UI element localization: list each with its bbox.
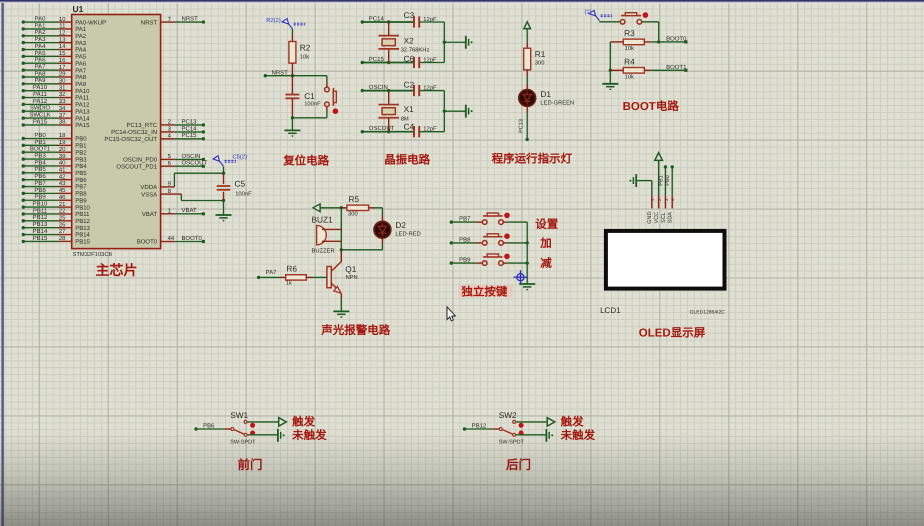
svg-text:PA5: PA5 [35, 50, 47, 57]
svg-text:PB12: PB12 [75, 218, 90, 225]
svg-text:LED-GREEN: LED-GREEN [540, 99, 574, 106]
svg-text:程序运行指示灯: 程序运行指示灯 [492, 153, 573, 166]
svg-text:NPN: NPN [346, 275, 358, 281]
svg-text:PB8: PB8 [34, 187, 46, 194]
svg-text:1: 1 [650, 198, 655, 201]
svg-text:PA2: PA2 [75, 33, 87, 40]
svg-text:VSSA: VSSA [141, 191, 157, 198]
svg-text:PA15: PA15 [33, 118, 48, 125]
svg-text:BUZZER: BUZZER [312, 249, 335, 255]
svg-text:PC14: PC14 [369, 15, 385, 22]
svg-text:4: 4 [671, 198, 676, 201]
svg-text:BOOT电路: BOOT电路 [623, 100, 680, 113]
svg-text:27: 27 [59, 228, 66, 235]
svg-text:D1: D1 [540, 89, 551, 99]
svg-text:SW2: SW2 [499, 410, 517, 420]
svg-text:3: 3 [664, 198, 669, 201]
svg-text:20: 20 [59, 146, 66, 153]
svg-text:OSCOUT: OSCOUT [369, 125, 395, 132]
svg-text:PA5: PA5 [75, 54, 87, 61]
svg-text:SCL: SCL [661, 212, 667, 223]
svg-text:OSCIN: OSCIN [369, 84, 388, 91]
svg-text:21: 21 [59, 201, 66, 208]
svg-text:12pF: 12pF [423, 85, 437, 92]
svg-text:R3: R3 [624, 28, 635, 38]
svg-text:PA7: PA7 [266, 269, 278, 276]
svg-text:PA11: PA11 [75, 95, 89, 102]
svg-text:PB4: PB4 [34, 159, 46, 166]
svg-text:OSCIN: OSCIN [182, 153, 201, 160]
svg-text:PB9: PB9 [75, 197, 87, 204]
svg-text:NRST: NRST [182, 15, 199, 22]
svg-text:主芯片: 主芯片 [96, 262, 138, 278]
svg-text:PA9: PA9 [75, 81, 87, 88]
svg-text:SW1: SW1 [230, 410, 248, 420]
svg-text:28: 28 [59, 235, 66, 242]
svg-text:PA9: PA9 [35, 77, 47, 84]
svg-text:PA2: PA2 [35, 29, 47, 36]
svg-text:C4: C4 [404, 122, 415, 132]
svg-text:PB5: PB5 [75, 170, 87, 177]
svg-text:42: 42 [59, 173, 66, 180]
svg-text:PA12: PA12 [75, 102, 90, 109]
svg-text:PA8: PA8 [75, 74, 87, 81]
svg-text:41: 41 [59, 167, 66, 174]
svg-text:12pF: 12pF [423, 126, 437, 133]
svg-text:PB4: PB4 [75, 163, 87, 170]
svg-text:1k: 1k [286, 280, 292, 287]
svg-text:BOOT0: BOOT0 [137, 239, 158, 246]
svg-text:PA15: PA15 [75, 122, 90, 129]
svg-text:PB6: PB6 [75, 177, 87, 184]
svg-text:R1: R1 [535, 49, 546, 59]
svg-text:46: 46 [59, 194, 66, 201]
svg-text:R6: R6 [286, 264, 297, 274]
svg-text:BOOT0: BOOT0 [182, 235, 203, 242]
svg-text:PB8: PB8 [459, 236, 471, 243]
svg-text:LED-RED: LED-RED [395, 232, 420, 238]
svg-text:OSCOUT_PD1: OSCOUT_PD1 [116, 163, 157, 170]
svg-text:触发: 触发 [292, 416, 315, 429]
svg-text:PC14-OSC32_IN: PC14-OSC32_IN [111, 129, 157, 136]
svg-text:GND: GND [647, 211, 653, 223]
svg-text:PA13: PA13 [75, 108, 90, 115]
svg-text:PB7: PB7 [34, 180, 46, 187]
svg-text:12pF: 12pF [423, 16, 437, 23]
svg-text:PA14: PA14 [75, 115, 90, 122]
svg-text:PB15: PB15 [75, 239, 90, 246]
svg-text:PB1: PB1 [75, 143, 87, 150]
svg-text:PB0: PB0 [75, 136, 87, 143]
svg-text:300: 300 [535, 60, 545, 67]
svg-text:45: 45 [59, 187, 66, 194]
svg-text:BOOT1: BOOT1 [666, 64, 687, 71]
svg-text:34: 34 [59, 105, 66, 112]
svg-text:11: 11 [59, 23, 66, 30]
svg-text:32.768KHz: 32.768KHz [401, 46, 430, 53]
svg-text:PB9: PB9 [459, 257, 471, 264]
svg-text:PA6: PA6 [75, 60, 87, 67]
svg-text:32: 32 [59, 91, 66, 98]
svg-text:100nF: 100nF [235, 190, 252, 197]
svg-text:SWDIO: SWDIO [30, 105, 51, 112]
svg-text:触发: 触发 [561, 416, 584, 429]
svg-text:10k: 10k [625, 74, 634, 81]
svg-text:39: 39 [59, 153, 66, 160]
svg-text:PA10: PA10 [75, 88, 90, 95]
svg-text:40: 40 [59, 160, 66, 167]
svg-text:PA4: PA4 [35, 43, 47, 50]
svg-text:PC15: PC15 [182, 132, 198, 139]
svg-text:PB0: PB0 [665, 175, 671, 185]
svg-text:PB10: PB10 [75, 204, 90, 211]
svg-text:VBAT: VBAT [182, 207, 198, 214]
svg-text:PA7: PA7 [75, 67, 87, 74]
svg-text:PA7: PA7 [35, 63, 47, 70]
svg-text:PA3: PA3 [75, 40, 87, 47]
svg-text:PB10: PB10 [33, 201, 48, 208]
svg-text:100nF: 100nF [304, 101, 321, 108]
svg-text:SDA: SDA [668, 212, 674, 224]
svg-text:PB7: PB7 [459, 216, 471, 223]
svg-text:晶振电路: 晶振电路 [384, 154, 430, 167]
svg-text:PB12: PB12 [33, 214, 48, 221]
svg-text:X2: X2 [404, 35, 415, 45]
svg-text:PB5: PB5 [34, 166, 46, 173]
svg-text:30: 30 [59, 77, 66, 84]
svg-text:10k: 10k [625, 45, 634, 52]
svg-text:PA8: PA8 [35, 70, 47, 77]
svg-text:43: 43 [59, 180, 66, 187]
svg-text:D2: D2 [395, 220, 406, 230]
svg-text:PB2: PB2 [75, 149, 87, 156]
svg-text:37: 37 [59, 112, 66, 119]
svg-text:SWCLK: SWCLK [29, 111, 50, 118]
svg-text:44: 44 [168, 235, 175, 242]
svg-text:STM32F103C8: STM32F103C8 [73, 251, 112, 258]
svg-text:PB14: PB14 [75, 232, 90, 239]
svg-text:PB7: PB7 [75, 184, 87, 191]
svg-text:PC14: PC14 [182, 125, 198, 132]
svg-text:VCC: VCC [654, 212, 660, 224]
svg-text:OSCOUT: OSCOUT [182, 160, 208, 167]
svg-text:PB3: PB3 [34, 152, 46, 159]
svg-text:BUZ1: BUZ1 [312, 215, 334, 225]
svg-text:PA6: PA6 [35, 57, 47, 64]
svg-text:PB14: PB14 [33, 228, 48, 235]
svg-text:29: 29 [59, 71, 66, 78]
svg-text:复位电路: 复位电路 [282, 154, 329, 168]
svg-text:13: 13 [59, 36, 66, 43]
svg-text:10k: 10k [300, 54, 309, 61]
svg-text:300: 300 [348, 211, 358, 218]
svg-text:31: 31 [59, 84, 66, 91]
svg-text:16: 16 [59, 57, 66, 64]
svg-text:26: 26 [59, 221, 66, 228]
svg-text:NRST: NRST [141, 19, 158, 26]
svg-text:C1: C1 [304, 91, 315, 101]
svg-text:C6: C6 [404, 54, 415, 64]
svg-text:Q1: Q1 [345, 264, 356, 274]
svg-text:BOOT1: BOOT1 [30, 146, 51, 153]
svg-text:PB9: PB9 [34, 194, 46, 201]
svg-text:PB1: PB1 [34, 139, 46, 146]
svg-text:PB15: PB15 [33, 235, 48, 242]
svg-text:PB0: PB0 [34, 132, 46, 139]
svg-text:独立按键: 独立按键 [460, 284, 507, 298]
svg-text:PA12: PA12 [33, 98, 48, 105]
svg-text:R2: R2 [300, 42, 311, 52]
svg-text:PC13_RTC: PC13_RTC [127, 122, 158, 129]
svg-text:PB12: PB12 [472, 422, 487, 429]
svg-text:NRST: NRST [272, 69, 289, 76]
svg-text:加: 加 [539, 237, 552, 250]
svg-text:PA0: PA0 [35, 15, 47, 22]
svg-text:PB6: PB6 [203, 422, 215, 429]
svg-text:33: 33 [59, 98, 66, 105]
svg-text:C5: C5 [235, 179, 246, 189]
svg-text:LCD1: LCD1 [600, 306, 621, 315]
svg-text:C5(2): C5(2) [233, 154, 248, 161]
svg-text:PB3: PB3 [75, 156, 87, 163]
svg-text:PA1: PA1 [75, 26, 87, 33]
svg-text:PB13: PB13 [75, 225, 90, 232]
svg-text:PC13: PC13 [182, 118, 198, 125]
svg-text:15: 15 [59, 50, 66, 57]
svg-text:OLED显示屏: OLED显示屏 [639, 327, 706, 340]
svg-text:C3: C3 [404, 10, 415, 20]
svg-text:PB11: PB11 [75, 211, 90, 218]
svg-text:10: 10 [59, 16, 66, 23]
svg-text:U1: U1 [73, 4, 84, 14]
svg-text:12pF: 12pF [423, 57, 437, 64]
svg-text:2: 2 [657, 198, 662, 201]
svg-text:PC13: PC13 [519, 119, 525, 133]
svg-text:PC15: PC15 [369, 56, 385, 63]
svg-text:17: 17 [59, 64, 66, 71]
svg-text:14: 14 [59, 43, 66, 50]
svg-text:R2(2): R2(2) [266, 17, 281, 24]
svg-text:PA11: PA11 [33, 91, 47, 98]
svg-text:8M: 8M [401, 115, 409, 122]
svg-text:12: 12 [59, 29, 66, 36]
svg-text:OLED12864I2C: OLED12864I2C [690, 309, 726, 315]
svg-text:C2: C2 [404, 80, 415, 90]
svg-text:PB6: PB6 [34, 173, 46, 180]
svg-text:PA3: PA3 [35, 36, 47, 43]
svg-text:R4: R4 [624, 56, 635, 66]
svg-text:25: 25 [59, 215, 66, 222]
svg-text:38: 38 [59, 119, 66, 126]
svg-text:VBAT: VBAT [142, 211, 158, 218]
svg-text:PA1: PA1 [35, 22, 47, 29]
svg-text:R5: R5 [349, 194, 360, 204]
svg-text:BOOT0: BOOT0 [666, 35, 687, 42]
svg-text:PA10: PA10 [33, 84, 48, 91]
svg-text:22: 22 [59, 208, 66, 215]
svg-text:PB13: PB13 [33, 221, 48, 228]
svg-text:PB1: PB1 [658, 175, 664, 185]
svg-text:PA4: PA4 [75, 47, 87, 54]
svg-text:声光报警电路: 声光报警电路 [320, 324, 390, 337]
svg-text:PC15-OSC32_OUT: PC15-OSC32_OUT [104, 136, 157, 143]
svg-text:18: 18 [59, 132, 66, 139]
svg-text:减: 减 [540, 257, 552, 270]
svg-text:PB11: PB11 [33, 207, 48, 214]
svg-text:OSCIN_PD0: OSCIN_PD0 [123, 157, 158, 164]
svg-text:VDDA: VDDA [140, 184, 157, 191]
svg-text:PB8: PB8 [75, 191, 87, 198]
svg-text:X1: X1 [404, 104, 415, 114]
svg-text:PA0-WKUP: PA0-WKUP [75, 19, 106, 26]
svg-text:19: 19 [59, 139, 66, 146]
svg-text:设置: 设置 [535, 218, 558, 231]
